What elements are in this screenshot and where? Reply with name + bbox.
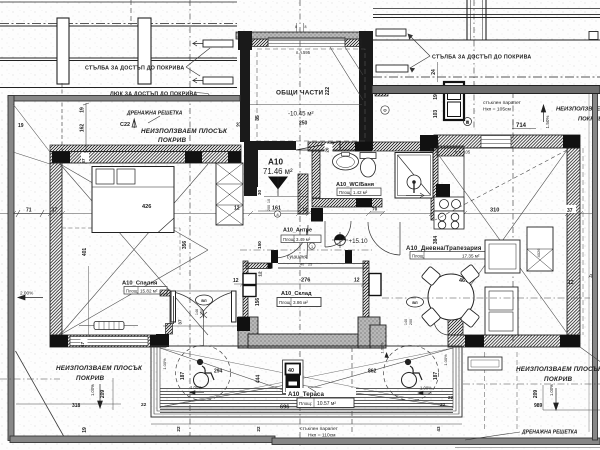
wire tick 714 <box>512 120 536 129</box>
label living area box <box>410 252 491 260</box>
svg-text:12: 12 <box>302 207 308 212</box>
slope 2.00% arrow left <box>18 295 43 300</box>
svg-text:Площ:: Площ: <box>279 300 291 305</box>
kitchen sink unit black <box>436 184 450 197</box>
svg-text:Нкп = 110см: Нкп = 110см <box>308 433 336 439</box>
svg-text:Нкп = 105см: Нкп = 105см <box>483 107 511 113</box>
roof hatch box right <box>468 357 502 370</box>
svg-text:п.л.595: п.л.595 <box>296 50 311 55</box>
wall concrete right block <box>358 317 380 348</box>
svg-text:40: 40 <box>300 263 304 267</box>
svg-text:3.86 м²: 3.86 м² <box>293 300 308 305</box>
dimension 37 on wall <box>51 205 61 214</box>
wire window axis line <box>88 266 90 336</box>
svg-text:12: 12 <box>233 278 239 284</box>
wire leader terrace label <box>308 387 316 392</box>
svg-text:Ф: Ф <box>383 108 387 113</box>
svg-text:ОБЩИ ЧАСТИ: ОБЩИ ЧАСТИ <box>276 90 323 97</box>
svg-text:250: 250 <box>299 121 308 127</box>
svg-text:187: 187 <box>433 372 439 381</box>
svg-text:ПОКРИВ: ПОКРИВ <box>158 137 187 144</box>
window bedroom bottom <box>70 337 148 346</box>
column living top-left <box>420 135 438 148</box>
wall concrete bottom band <box>248 334 370 348</box>
wire roof lower line <box>0 87 237 89</box>
svg-text:37: 37 <box>236 123 242 129</box>
wall antre right vertical <box>298 174 308 214</box>
wall bedroom left <box>50 163 62 335</box>
svg-text:37: 37 <box>567 208 573 214</box>
wire axis dashdot left <box>0 23 237 25</box>
door closer cross <box>200 311 207 346</box>
label wc area box <box>337 188 381 196</box>
node p circle <box>464 118 472 126</box>
wire right column dashes <box>582 148 584 335</box>
svg-text:А10_Дневна/Трапезария: А10_Дневна/Трапезария <box>406 246 482 252</box>
wall living right <box>567 148 580 335</box>
label bedroom area box <box>124 287 167 295</box>
wall stair left <box>240 39 250 142</box>
wall door jamb left <box>171 291 176 322</box>
svg-text:71.46 м²: 71.46 м² <box>263 167 293 176</box>
svg-text:24: 24 <box>431 69 437 75</box>
bed <box>92 167 174 233</box>
dimension 70 <box>370 211 384 213</box>
wire dim chain bottom <box>151 423 462 425</box>
wall parapet long band top-right <box>372 86 600 94</box>
kitchen upper cabinet <box>437 146 464 156</box>
drain box 40 <box>286 364 301 375</box>
svg-text:276: 276 <box>301 278 310 284</box>
wall living sw corner <box>448 317 463 335</box>
svg-text:2.00%: 2.00% <box>20 291 33 296</box>
svg-text:17.35 м²: 17.35 м² <box>462 253 480 258</box>
svg-text:22: 22 <box>440 402 446 408</box>
wall door jamb right <box>232 291 237 322</box>
svg-text:146: 146 <box>195 309 199 315</box>
column chimney top-left <box>57 18 151 84</box>
svg-text:1.00%: 1.00% <box>162 358 167 370</box>
svg-text:209: 209 <box>533 390 539 399</box>
svg-text:12: 12 <box>258 271 263 277</box>
svg-text:22: 22 <box>256 426 261 432</box>
wall sklad top hatched part <box>246 263 271 269</box>
chair sw <box>421 307 441 327</box>
svg-text:ДРЕНАЖНА РЕШЕТКА: ДРЕНАЖНА РЕШЕТКА <box>521 430 578 436</box>
sink wc <box>333 153 359 171</box>
svg-text:35: 35 <box>255 115 261 121</box>
svg-text:вл: вл <box>201 298 207 303</box>
dimension line horizontal y213 <box>13 210 50 217</box>
svg-text:12: 12 <box>568 280 574 286</box>
wall sklad top thin part <box>278 264 369 269</box>
svg-text:СТЪЛБА ЗА ДОСТЪП ДО ПОКРИВА: СТЪЛБА ЗА ДОСТЪП ДО ПОКРИВА <box>432 55 531 61</box>
cabinet sklad right <box>369 274 381 296</box>
svg-text:356: 356 <box>182 241 188 250</box>
svg-text:10.57 м²: 10.57 м² <box>317 401 336 407</box>
svg-text:22: 22 <box>141 402 147 408</box>
column bedroom bottom-left <box>50 335 68 347</box>
terrace outline nested <box>151 346 462 417</box>
label terrace <box>286 388 356 398</box>
svg-text:37: 37 <box>178 319 183 325</box>
wheelchair symbol left <box>194 359 215 387</box>
wall bedroom top <box>50 145 241 152</box>
svg-text:714: 714 <box>516 123 527 129</box>
svg-text:Площ:: Площ: <box>412 253 424 258</box>
wall stair top band <box>236 32 372 39</box>
svg-text:187: 187 <box>180 372 186 381</box>
wire roof line right top <box>373 8 600 10</box>
wall parapet band right <box>593 91 598 440</box>
door leaf arcs <box>176 293 232 319</box>
wall parapet band top-left <box>8 96 240 102</box>
dimension 37 on top wall <box>81 153 89 164</box>
wire thin line right margin <box>588 94 590 432</box>
node circled 1 <box>309 243 315 249</box>
svg-text:989: 989 <box>534 403 543 409</box>
toilet wc <box>360 153 376 178</box>
wall antre left black <box>244 141 258 196</box>
wire roof line right mid <box>373 39 600 41</box>
wall stair bottom right hatched <box>340 142 362 150</box>
svg-text:294: 294 <box>214 369 223 375</box>
wire leader stairs left <box>186 48 210 76</box>
node vl oval living <box>407 297 424 307</box>
wire stair inner dashed rect <box>257 49 365 141</box>
svg-text:19: 19 <box>433 94 439 100</box>
svg-text:22: 22 <box>448 395 454 401</box>
slope arrow 1.50% <box>541 105 545 122</box>
wall wc left <box>312 151 320 198</box>
svg-text:8: 8 <box>276 213 278 217</box>
roof ladder left <box>193 40 233 84</box>
column bedroom top-mid <box>185 152 202 164</box>
drain dark box <box>286 375 301 392</box>
column sklad top end <box>268 263 273 269</box>
wall thin vertical to terrace corner <box>170 296 174 324</box>
wall concrete right step <box>370 325 386 348</box>
door terrace jamb <box>431 315 437 320</box>
svg-text:25: 25 <box>308 263 312 267</box>
wall sklad left <box>243 261 248 334</box>
node circled 8 <box>274 211 280 217</box>
wire laundry niche lines <box>240 249 372 251</box>
wall stair bottom black <box>250 141 296 150</box>
svg-text:1.00%: 1.00% <box>549 384 554 396</box>
svg-text:19: 19 <box>82 427 88 433</box>
wire bedroom dashed zone <box>62 228 180 275</box>
wall wc top <box>308 142 434 151</box>
svg-text:30: 30 <box>257 190 262 196</box>
column living top-right <box>563 135 580 148</box>
svg-text:Площ:: Площ: <box>126 289 138 294</box>
svg-text:Площ:: Площ: <box>299 401 312 406</box>
svg-text:1: 1 <box>311 245 313 249</box>
slope down arrow bottom-left <box>98 384 103 408</box>
shaft chimney right <box>444 82 464 120</box>
column wc top black1 <box>355 142 372 152</box>
svg-text:162: 162 <box>80 124 86 133</box>
cabinet right upper <box>485 240 520 273</box>
node vl oval bedroom door <box>196 295 213 305</box>
wire entry threshold lines <box>258 197 308 212</box>
svg-text:стъклен парапет: стъклен парапет <box>483 101 522 106</box>
entry level triangle <box>268 177 288 190</box>
svg-text:-10.45 м²: -10.45 м² <box>288 111 314 118</box>
svg-text:С22: С22 <box>120 122 130 128</box>
svg-text:вл: вл <box>412 300 418 305</box>
column bedroom top-left <box>52 152 70 164</box>
svg-text:209: 209 <box>100 390 106 399</box>
drain arrow symbol <box>132 119 136 128</box>
wall stub left of door <box>160 290 170 296</box>
svg-text:стъклен парапет: стъклен парапет <box>300 427 339 432</box>
svg-text:200: 200 <box>409 319 413 325</box>
chair nw <box>421 266 441 286</box>
svg-text:43: 43 <box>436 426 441 432</box>
wire leader drainage bottom <box>465 432 520 440</box>
level mark +15.10 <box>332 232 368 248</box>
column bedroom top-right <box>228 152 241 164</box>
wall parapet band bottom <box>10 436 275 443</box>
svg-text:1.00%: 1.00% <box>90 384 95 396</box>
dimension 30 rotated <box>257 187 264 198</box>
svg-text:НЕИЗПОЛЗВАЕМ ПЛОСЪК: НЕИЗПОЛЗВАЕМ ПЛОСЪК <box>516 366 600 373</box>
svg-text:Площ:: Площ: <box>339 190 351 195</box>
svg-text:ДРЕНАЖНА РЕШЕТКА: ДРЕНАЖНА РЕШЕТКА <box>126 111 183 117</box>
stair treads <box>268 38 345 47</box>
dimension line vertical x86 <box>83 103 89 164</box>
wall stub below wc <box>311 208 323 222</box>
svg-text:19: 19 <box>18 123 24 129</box>
svg-text:1.42 м²: 1.42 м² <box>353 190 368 195</box>
wire bottom extra line <box>455 447 600 449</box>
door apartment entry triangle <box>296 142 340 151</box>
drain outer box <box>283 360 304 394</box>
svg-text:20: 20 <box>325 147 330 152</box>
column living bottom-left <box>465 335 484 347</box>
wire leader stairs right <box>408 34 430 72</box>
svg-text:150: 150 <box>257 241 262 249</box>
svg-text:310: 310 <box>490 208 499 214</box>
column terrace top-left <box>156 334 169 347</box>
wire axis dashdot bottom-left <box>0 378 60 380</box>
column vertical shaft top-right <box>467 0 486 40</box>
wall concrete left block <box>238 317 258 348</box>
svg-text:70: 70 <box>372 207 378 213</box>
dining table <box>428 274 474 320</box>
svg-text:444: 444 <box>256 375 262 384</box>
cabinet sklad left2 <box>243 286 256 297</box>
column sklad corner black over concrete <box>237 317 250 331</box>
svg-text:Площ:: Площ: <box>283 237 295 242</box>
dimension ticks above stair <box>297 23 304 32</box>
svg-text:22: 22 <box>176 426 181 432</box>
svg-text:156: 156 <box>255 298 261 307</box>
wire roof diagonal bottom-left <box>16 351 66 439</box>
svg-text:А10_Склад: А10_Склад <box>281 291 312 297</box>
svg-text:40: 40 <box>288 368 294 374</box>
column bedroom bottom-right <box>150 335 166 347</box>
wire slab double right <box>373 15 600 18</box>
shower cabin <box>395 153 433 199</box>
svg-text:ПОКРИВ: ПОКРИВ <box>544 376 573 383</box>
column living bottom-right <box>560 335 580 347</box>
stove 4 rings <box>434 211 464 229</box>
wire roof diagonal bottom-right <box>580 347 600 362</box>
chair ne <box>460 264 480 284</box>
wheelchair symbol right <box>402 359 423 387</box>
wire dimension line row y213 <box>0 211 592 216</box>
wall sklad right <box>363 261 369 317</box>
wire dimension line row y284 <box>234 282 372 287</box>
wheelchair circle right <box>384 346 439 401</box>
dimension 20 on wc wall <box>325 144 333 153</box>
dimension 37 right <box>566 205 576 214</box>
svg-text:3.49 м²: 3.49 м² <box>296 237 311 242</box>
wire diagonal roof corner <box>13 104 50 164</box>
wire axis dashdot living horizontal <box>382 297 590 299</box>
dimension 17 on wall <box>80 337 88 347</box>
svg-text:4026: 4026 <box>536 248 541 258</box>
svg-text:1.00%: 1.00% <box>420 386 432 391</box>
column wc bottom black <box>356 198 372 207</box>
wall parapet band left <box>8 96 14 441</box>
sofa <box>485 287 518 335</box>
chair se <box>460 308 480 328</box>
wall corner hatched left <box>252 39 268 47</box>
wall stair right <box>359 31 373 150</box>
wire roof slab line <box>0 25 237 27</box>
wall vestibule hatch step <box>166 324 173 335</box>
svg-text:17: 17 <box>80 342 85 348</box>
svg-text:сушилня: сушилня <box>287 255 307 261</box>
door living arc <box>368 222 400 255</box>
node f circle right of stair <box>381 106 389 114</box>
node hatched block right of stair <box>375 86 388 96</box>
svg-text:103: 103 <box>433 110 439 119</box>
wardrobe bedroom <box>216 163 243 225</box>
svg-text:12: 12 <box>234 206 240 212</box>
wall living top <box>434 135 580 148</box>
wire axis dashdot right lower <box>373 76 600 78</box>
svg-text:СТЪЛБА ЗА ДОСТЪП ДО ПОКРИВА: СТЪЛБА ЗА ДОСТЪП ДО ПОКРИВА <box>85 66 184 72</box>
svg-text:161: 161 <box>272 206 281 212</box>
wire vestibule dim line <box>163 325 240 327</box>
wire axis dashed verticals right roof <box>485 352 518 432</box>
svg-text:ПОКРИВ: ПОКРИВ <box>76 375 105 382</box>
wall bedroom bottom <box>50 335 166 347</box>
svg-text:8: 8 <box>295 25 297 29</box>
cabinet sklad left1 <box>243 274 256 285</box>
svg-text:401: 401 <box>82 248 88 257</box>
wire parapet double line <box>0 58 237 61</box>
svg-text:37: 37 <box>81 158 86 164</box>
wire axis dashed verticals <box>62 0 513 446</box>
kitchen upper circles <box>434 197 464 211</box>
wheelchair circle left <box>176 346 231 401</box>
svg-text:384: 384 <box>433 236 439 245</box>
door wc arc <box>325 221 351 247</box>
svg-text:200: 200 <box>267 205 271 211</box>
column antre left black <box>271 250 278 263</box>
svg-text:НЕИЗПОЛЗВАЕМ ПЛОСЪК: НЕИЗПОЛЗВАЕМ ПЛОСЪК <box>141 128 228 135</box>
svg-text:15.82 м²: 15.82 м² <box>140 289 158 294</box>
wall wc bottom <box>312 199 382 208</box>
wire bedroom ceiling diagonals <box>60 164 208 335</box>
wire leader hatch <box>196 93 211 98</box>
door entry arc <box>276 225 308 259</box>
svg-text:12: 12 <box>354 278 360 284</box>
slope down arrow bottom-right <box>554 388 559 410</box>
wire roof edge line top <box>0 1 237 3</box>
column sklad bottom-left black <box>237 317 250 331</box>
svg-text:1.00%: 1.00% <box>190 385 202 390</box>
window sliding door living top <box>481 136 511 148</box>
svg-text:А10: А10 <box>268 158 283 167</box>
wire stair diagonals <box>330 47 363 100</box>
svg-text:1.50%: 1.50% <box>545 115 550 128</box>
column marker small right <box>589 32 598 40</box>
svg-text:222: 222 <box>325 87 331 96</box>
svg-text:+15.10: +15.10 <box>349 238 369 245</box>
svg-text:НЕИЗПОЛЗВАЕМ ПЛОСЪК: НЕИЗПОЛЗВАЕМ ПЛОСЪК <box>56 365 143 372</box>
wire living diagonals <box>435 150 567 333</box>
wire terrace slope diagonals <box>160 348 453 407</box>
roof ladder right <box>376 29 408 72</box>
svg-text:1.00%: 1.00% <box>380 342 385 354</box>
wall kitchen-living left <box>431 142 438 220</box>
wire stair mid line <box>250 104 362 106</box>
svg-text:10: 10 <box>267 199 271 203</box>
svg-text:140: 140 <box>404 319 408 325</box>
wire dim line bottom-right <box>543 385 600 410</box>
terrace floor stripes <box>160 387 453 414</box>
svg-text:А10_Антре: А10_Антре <box>283 228 312 234</box>
svg-text:А10_WC/Баня: А10_WC/Баня <box>336 182 374 188</box>
wire axis dashdot right roof <box>463 383 600 385</box>
svg-text:71: 71 <box>26 208 32 214</box>
wall living bottom <box>448 335 580 347</box>
door opening top line <box>176 290 232 292</box>
svg-text:862: 862 <box>368 369 377 375</box>
label terrace area box <box>297 398 354 408</box>
wire leader drainage <box>148 116 160 123</box>
svg-text:А10_Спалня: А10_Спалня <box>122 281 157 287</box>
svg-text:8: 8 <box>305 25 307 29</box>
wall corner hatched right <box>345 39 361 47</box>
column antre right black <box>345 250 352 263</box>
wire dim ticks bottom-left <box>16 378 121 410</box>
label antre area box <box>281 235 321 243</box>
door terrace arc <box>434 320 449 335</box>
svg-text:1.00%: 1.00% <box>443 354 448 366</box>
wardrobe right tall <box>527 227 553 271</box>
svg-text:696: 696 <box>280 405 289 411</box>
column wc top black2 <box>420 142 434 152</box>
radiator under window <box>79 322 138 330</box>
svg-text:А10_Тераса: А10_Тераса <box>288 391 324 398</box>
svg-text:426: 426 <box>142 204 151 210</box>
svg-text:19: 19 <box>80 107 86 113</box>
kitchen counter <box>463 156 465 228</box>
label sklad area box <box>277 298 321 307</box>
